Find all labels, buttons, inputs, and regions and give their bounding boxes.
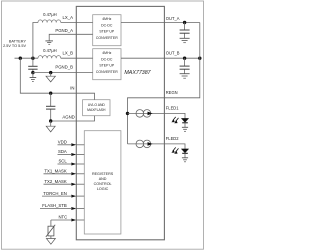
node OUT_A cap junction: [183, 21, 186, 24]
wire SDA: [58, 154, 72, 156]
wire OUT_A: [121, 22, 200, 24]
wire TORCH_EN: [42, 195, 71, 197]
svg-text:SDA: SDA: [58, 149, 67, 154]
wire FLED2: [164, 144, 185, 149]
svg-text:DC-DC: DC-DC: [101, 57, 113, 61]
wire AGND: [51, 120, 77, 122]
svg-text:AND: AND: [99, 177, 107, 181]
svg-text:TX1_MASK: TX1_MASK: [44, 169, 67, 174]
node OUT_B cap junction: [183, 57, 186, 60]
wire IN internal to UVLO: [76, 93, 94, 100]
svg-text:MAX77387: MAX77387: [124, 70, 151, 76]
registers and control logic block: [84, 131, 121, 234]
capacitor C4: [184, 58, 186, 73]
svg-text:DC-DC: DC-DC: [101, 23, 113, 27]
svg-text:CONVERTER: CONVERTER: [96, 70, 118, 74]
wire PGND_B: [33, 72, 93, 74]
svg-text:BATTERY: BATTERY: [9, 40, 27, 44]
wire REGN internal rail: [128, 98, 165, 144]
svg-text:FLED2: FLED2: [166, 136, 179, 141]
svg-text:LOGIC: LOGIC: [97, 187, 109, 191]
svg-text:MAXFLASH: MAXFLASH: [87, 108, 106, 112]
wire AGND internal to UVLO: [76, 116, 94, 121]
capacitor C2: [50, 93, 52, 121]
svg-text:FLED1: FLED1: [166, 106, 179, 111]
ground triangle PGND_B: [50, 73, 52, 77]
svg-text:VDD: VDD: [58, 140, 67, 145]
svg-text:SCL: SCL: [58, 159, 67, 164]
wire LX_B to IC: [61, 57, 93, 59]
node PGND_B-gnd junction: [49, 71, 52, 74]
svg-text:4MHz: 4MHz: [102, 17, 111, 21]
svg-text:CONVERTER: CONVERTER: [96, 36, 118, 40]
LED D2: [181, 149, 188, 153]
svg-text:IN: IN: [70, 86, 74, 91]
capacitor C3: [184, 23, 186, 39]
wire SCL: [58, 163, 72, 165]
wire FLED1: [164, 113, 185, 118]
svg-text:OUT_A: OUT_A: [166, 16, 180, 21]
svg-text:AGND: AGND: [62, 114, 74, 119]
IC U1 MAX77387 outline: [76, 6, 164, 239]
ground triangle NTC: [50, 236, 52, 239]
svg-text:REGISTERS: REGISTERS: [92, 172, 114, 176]
wire TX1_MASK: [44, 173, 72, 175]
wire battery rail: [15, 57, 39, 59]
wire OUT to REGN: [164, 23, 199, 98]
node C1-PGND_B junction: [31, 71, 34, 74]
svg-text:NTC: NTC: [58, 215, 67, 220]
svg-text:0.47μH: 0.47μH: [43, 48, 57, 53]
svg-text:TORCH_EN: TORCH_EN: [43, 191, 67, 196]
LED D1: [181, 118, 188, 122]
wire NTC: [51, 219, 71, 221]
svg-text:2.5V TO 5.5V: 2.5V TO 5.5V: [3, 44, 26, 48]
ground below C4: [180, 74, 190, 79]
svg-text:REGN: REGN: [166, 90, 178, 95]
ground below C1: [32, 73, 34, 78]
svg-text:4MHz: 4MHz: [102, 51, 111, 55]
current source FLED1: [128, 112, 165, 114]
wire FLASH_STB: [40, 208, 71, 210]
wire OUT_B: [121, 57, 200, 59]
current source FLED2: [128, 143, 165, 145]
LED D2 flash arrows: [173, 147, 179, 152]
node battery-IN junction: [19, 57, 22, 60]
UVLO AND MAXFLASH block: [83, 100, 110, 116]
svg-text:0.47μH: 0.47μH: [43, 12, 57, 17]
ground PGND_A: [45, 41, 53, 44]
LED D1 flash arrows: [173, 117, 179, 122]
svg-text:CONTROL: CONTROL: [94, 182, 112, 186]
svg-text:TX2_MASK: TX2_MASK: [44, 179, 67, 184]
svg-text:LX_B: LX_B: [62, 51, 73, 56]
node OUT_B right junction: [198, 57, 201, 60]
ground below C3: [180, 38, 190, 42]
svg-text:PGND_A: PGND_A: [55, 28, 73, 33]
wire PGND_A: [49, 34, 92, 40]
wire LX_A branch vertical: [33, 23, 38, 59]
svg-text:STEP UP: STEP UP: [99, 64, 115, 68]
thermistor RT1: [50, 220, 52, 226]
ground triangle AGND: [50, 121, 52, 126]
node AGND junction: [49, 119, 52, 122]
svg-text:STEP UP: STEP UP: [99, 30, 115, 34]
node rail-FLED1 junction: [126, 112, 129, 115]
wire VDD: [58, 144, 72, 146]
wire LX_A to IC: [61, 22, 93, 24]
svg-text:OUT_B: OUT_B: [166, 51, 180, 56]
wire IN: [20, 58, 76, 93]
svg-text:UVLO AND: UVLO AND: [88, 103, 106, 107]
svg-text:PGND_B: PGND_B: [55, 64, 73, 69]
svg-text:LX_A: LX_A: [62, 15, 73, 20]
node IN-cap junction: [49, 92, 52, 95]
svg-text:FLASH_STB: FLASH_STB: [42, 203, 67, 208]
converter block B: [93, 49, 121, 80]
converter block A: [93, 15, 121, 46]
wire TX2_MASK: [44, 183, 72, 185]
node battery-cap junction: [31, 57, 34, 60]
capacitor C1 input: [32, 58, 34, 72]
